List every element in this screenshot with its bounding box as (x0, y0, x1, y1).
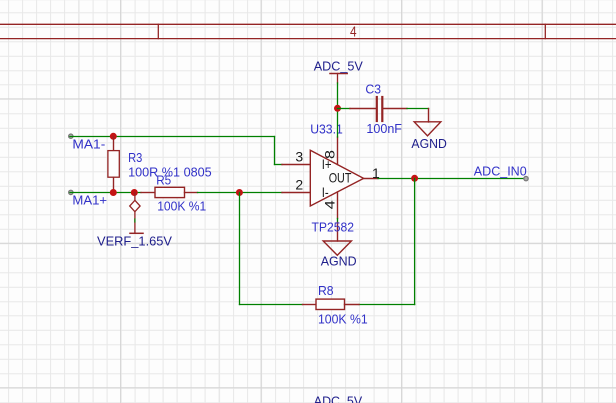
wire C3 to AGND (407, 108, 429, 110)
capacitor C3 (350, 97, 407, 121)
wire output down (414, 179, 416, 305)
junction R3 top (110, 133, 117, 140)
svg-text:3: 3 (295, 149, 303, 165)
node MA1- (69, 134, 106, 152)
wire MA1- vertical drop (274, 137, 276, 165)
resistor R5 (141, 187, 198, 197)
node MA1+ (69, 190, 108, 207)
svg-text:I-: I- (322, 184, 329, 200)
power port VERF_1.65V (130, 193, 143, 234)
svg-text:100K %1: 100K %1 (157, 199, 206, 214)
svg-text:R8: R8 (318, 283, 334, 298)
svg-text:100K %1: 100K %1 (318, 311, 368, 326)
wire MA1- horizontal (70, 136, 275, 138)
svg-text:ADC_5V: ADC_5V (314, 394, 363, 403)
svg-text:C3: C3 (365, 81, 381, 96)
junction ADC_5V (334, 105, 341, 112)
wire ADC_5V down (337, 83, 339, 137)
svg-text:100nF: 100nF (366, 121, 402, 136)
svg-text:R3: R3 (128, 150, 142, 165)
wire to pin 3 (275, 164, 283, 166)
sheet border strip (0, 24, 616, 38)
wire MA1+ (70, 192, 141, 194)
svg-text:R5: R5 (156, 172, 171, 187)
wire junction to C3 (338, 108, 351, 110)
svg-text:ADC_IN0: ADC_IN0 (474, 163, 527, 178)
junction output (411, 175, 418, 182)
svg-text:4: 4 (350, 24, 357, 41)
resistor R3 (108, 137, 119, 193)
svg-text:MA1-: MA1- (72, 137, 105, 152)
power port ADC_5V (330, 74, 347, 84)
wire feedback bottom left (240, 304, 303, 306)
svg-text:OUT: OUT (329, 170, 352, 186)
wire feedback bottom right (359, 304, 415, 306)
resistor R8 (303, 299, 360, 309)
junction VERF tap (131, 189, 138, 196)
wire R5 to pin 2 (198, 192, 283, 194)
wire feedback left vertical (239, 193, 241, 305)
svg-text:2: 2 (295, 177, 303, 193)
junction R3 bottom (110, 189, 117, 196)
svg-text:VERF_1.65V: VERF_1.65V (97, 233, 172, 248)
node ADC_IN0 (474, 163, 528, 180)
svg-text:ADC_5V: ADC_5V (314, 58, 363, 73)
junction feedback tap (236, 189, 243, 196)
svg-text:4: 4 (321, 200, 337, 209)
svg-text:TP2582: TP2582 (312, 220, 355, 235)
op-amp U33.1 (282, 137, 378, 241)
svg-text:AGND: AGND (411, 136, 446, 151)
wire output (378, 178, 526, 180)
ground AGND below op-amp (323, 241, 351, 255)
svg-text:AGND: AGND (321, 254, 357, 269)
ground AGND right (414, 109, 441, 136)
svg-text:MA1+: MA1+ (72, 193, 107, 208)
